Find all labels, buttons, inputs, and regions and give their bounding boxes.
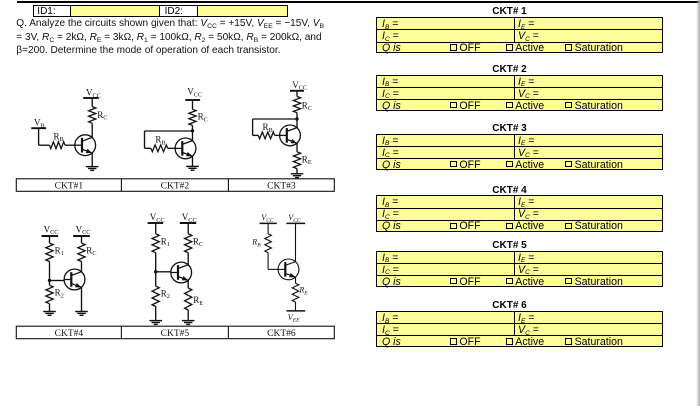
wire	[295, 277, 297, 283]
transistor Q4 (CKT4)	[64, 269, 85, 290]
wire (collector)	[295, 223, 297, 261]
wire	[39, 144, 50, 146]
svg-text:RB: RB	[155, 135, 165, 147]
svg-text:R2: R2	[55, 288, 64, 300]
ground	[291, 174, 304, 178]
wire	[187, 253, 189, 265]
wire	[49, 236, 51, 243]
wire	[187, 310, 189, 320]
ground	[75, 312, 88, 316]
resistor RC (CKT5)	[185, 234, 192, 253]
wire	[296, 113, 298, 128]
wire	[187, 280, 189, 288]
svg-text:CKT#2: CKT#2	[161, 182, 190, 192]
svg-text:RB: RB	[54, 131, 64, 143]
transistor Q2 (CKT2)	[175, 138, 196, 159]
answer block CKT# 5	[429, 240, 590, 251]
ground	[86, 167, 99, 171]
resistor RC (CKT2)	[189, 109, 196, 125]
node: collector junction	[191, 129, 194, 132]
wire	[38, 128, 40, 145]
question text	[16, 17, 356, 57]
resistor R2 (CKT4)	[46, 285, 53, 303]
wire	[187, 223, 189, 234]
wire	[267, 253, 269, 270]
resistor RC (CKT1)	[89, 107, 96, 124]
ID1 label cell	[33, 5, 71, 17]
svg-text:VCC: VCC	[288, 213, 301, 224]
right page edge shading	[696, 0, 700, 406]
svg-text:CKT#1: CKT#1	[55, 182, 84, 192]
transistor Q5 (CKT5)	[171, 262, 192, 283]
svg-text:RC: RC	[86, 245, 96, 257]
transistor Q3 (CKT3)	[280, 125, 301, 146]
resistor R1 (CKT5)	[152, 234, 159, 253]
wire	[268, 268, 278, 270]
wire	[168, 147, 176, 149]
svg-text:VCC: VCC	[44, 224, 59, 236]
answer block CKT# 6	[429, 300, 590, 311]
wire	[253, 134, 259, 136]
wire	[155, 223, 157, 234]
svg-text:VCC: VCC	[187, 87, 202, 99]
wire	[296, 91, 298, 97]
svg-text:RE: RE	[302, 154, 312, 166]
svg-text:R1: R1	[161, 236, 170, 248]
svg-text:RE: RE	[193, 295, 203, 307]
svg-text:VEE: VEE	[288, 313, 300, 324]
ground	[186, 166, 199, 170]
node: base junction	[154, 270, 157, 273]
svg-text:RC: RC	[97, 110, 107, 122]
wire	[156, 271, 171, 273]
resistor RB (CKT3)	[258, 132, 275, 139]
svg-text:VCC: VCC	[76, 224, 91, 236]
answer block CKT# 1	[429, 6, 590, 17]
svg-text:CKT#5: CKT#5	[161, 329, 190, 339]
svg-text:RC: RC	[198, 112, 208, 124]
wire	[145, 147, 151, 149]
wire	[295, 302, 297, 311]
node: base junction	[48, 279, 51, 282]
svg-text:RE: RE	[298, 286, 308, 297]
wire	[155, 307, 157, 321]
svg-text:R1: R1	[55, 245, 64, 257]
node VEE (CKT6)	[286, 310, 305, 312]
ID2 entry cell (yellow)	[197, 5, 288, 17]
svg-text:VCC: VCC	[261, 213, 274, 224]
answer block CKT# 4	[429, 185, 590, 196]
circuit name boxes row	[16, 326, 334, 339]
resistor RC (CKT4)	[78, 243, 85, 261]
wire	[192, 125, 194, 140]
answer block CKT# 3	[429, 123, 590, 134]
ground	[43, 312, 56, 316]
wire	[192, 100, 194, 109]
resistor R1 (CKT4)	[46, 243, 53, 261]
wire	[192, 156, 194, 166]
ground	[182, 321, 195, 325]
svg-text:RB: RB	[263, 122, 273, 134]
wire	[296, 143, 298, 152]
ground	[149, 321, 162, 325]
wire	[155, 253, 157, 286]
svg-text:CKT#6: CKT#6	[267, 329, 296, 339]
svg-text:RB: RB	[251, 238, 261, 249]
resistor RB (CKT2)	[151, 145, 168, 152]
page top border	[17, 1, 700, 3]
answer block CKT# 2	[429, 64, 590, 75]
wire	[267, 223, 269, 233]
wire	[81, 262, 83, 272]
wire	[91, 123, 93, 137]
circuit schematics	[0, 0, 370, 360]
resistor RB (CKT6)	[265, 234, 272, 253]
wire	[91, 98, 93, 107]
wire	[50, 280, 65, 282]
ID1 entry cell (yellow)	[70, 5, 160, 17]
wire	[275, 134, 280, 136]
wire (feedback)	[253, 118, 297, 120]
wire	[81, 287, 83, 311]
wire	[81, 236, 83, 243]
resistor RC (CKT3)	[293, 97, 300, 113]
resistor R2 (CKT5)	[152, 286, 159, 306]
resistor RE (CKT6)	[292, 283, 299, 302]
wire	[91, 153, 93, 166]
transistor Q6 (CKT6)	[278, 259, 299, 280]
wire	[296, 169, 298, 174]
svg-text:VCC: VCC	[292, 80, 307, 92]
resistor RE (CKT3)	[293, 152, 300, 169]
resistor RE (CKT5)	[185, 288, 192, 310]
wire	[49, 304, 51, 312]
resistor RB (CKT1)	[50, 142, 66, 149]
node: collector junction	[295, 117, 298, 120]
wire	[144, 131, 146, 148]
wire	[49, 262, 51, 286]
wire	[252, 119, 254, 135]
svg-text:R2: R2	[161, 288, 170, 300]
wire	[65, 144, 75, 146]
svg-text:CKT#4: CKT#4	[55, 329, 84, 339]
ID2 label cell	[159, 5, 198, 17]
svg-text:RC: RC	[193, 236, 203, 248]
wire (feedback)	[145, 130, 193, 132]
svg-text:RC: RC	[302, 100, 312, 112]
svg-text:CKT#3: CKT#3	[267, 182, 296, 192]
circuit name boxes row	[16, 179, 334, 192]
transistor Q1 (CKT1)	[75, 135, 96, 156]
